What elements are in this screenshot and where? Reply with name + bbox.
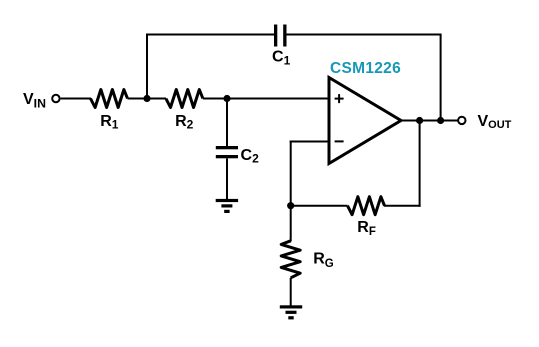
- node B junction dot: [223, 95, 230, 102]
- wire top left to C1: [146, 34, 274, 36]
- wire top right corner down to output: [440, 35, 442, 121]
- wire VIN to R1: [61, 98, 91, 100]
- wire op-amp output to terminal: [401, 120, 458, 122]
- input terminal circle: [52, 95, 59, 102]
- op-amp U1 triangle: [329, 78, 401, 164]
- node C junction dot (feedback RF tap): [416, 117, 423, 124]
- ground (below C2): [216, 199, 238, 213]
- wire node B down to C2: [226, 99, 228, 147]
- node A junction dot: [143, 95, 150, 102]
- wire RF left segment to node E: [290, 205, 348, 207]
- wire node E up: [290, 141, 292, 206]
- node E junction dot (inverting node): [287, 202, 294, 209]
- resistor RF: [348, 197, 385, 215]
- wire node A up: [146, 34, 148, 99]
- wire R1 to R2: [128, 98, 167, 100]
- svg-text:CSM1226: CSM1226: [330, 60, 401, 77]
- wire output down to RF: [419, 121, 421, 207]
- op-amp minus pin mark: [335, 140, 344, 142]
- wire C2 to ground: [226, 158, 228, 199]
- op-amp plus pin mark: [335, 94, 344, 103]
- capacitor C2: [216, 146, 238, 158]
- capacitor C1: [274, 25, 287, 47]
- ground (below RG): [280, 305, 302, 319]
- resistor R1: [91, 90, 128, 108]
- output terminal circle: [458, 117, 465, 124]
- wire C1 to top right corner: [287, 34, 442, 36]
- wire RF right segment: [384, 205, 421, 207]
- wire RG to ground: [290, 278, 292, 306]
- wire to op-amp inverting input: [290, 141, 330, 143]
- resistor RG: [281, 241, 300, 278]
- wire R2 to op-amp: [203, 98, 330, 100]
- wire node E down to RG: [290, 206, 292, 242]
- node D junction dot (C1 feedback tap): [437, 117, 444, 124]
- resistor R2: [166, 90, 203, 108]
